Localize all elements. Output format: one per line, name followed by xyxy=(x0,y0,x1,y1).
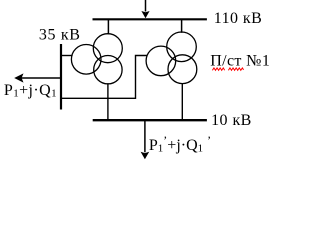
wire: 10 kV load feeder with arrow (P1'+jQ1') xyxy=(141,121,150,159)
wire: incoming 110 kV supply arrow xyxy=(141,0,149,18)
transformer T1 LV winding xyxy=(94,55,122,83)
transformer T2 MV winding xyxy=(146,46,176,76)
transformer T1 (three-winding, left) HV winding xyxy=(93,34,122,63)
transformer T2 LV winding xyxy=(168,55,197,84)
svg-text:110 кВ: 110 кВ xyxy=(214,10,262,27)
wire: T1 LV winding down to 10 kV bus xyxy=(107,83,109,120)
bus: 10 kV busbar xyxy=(93,119,207,121)
bus: 110 kV busbar xyxy=(93,18,207,20)
svg-text:35 кВ: 35 кВ xyxy=(39,26,81,43)
transformer T1 MV winding xyxy=(71,45,101,75)
svg-text:P1+j·Q1: P1+j·Q1 xyxy=(4,82,57,100)
spellcheck squiggle under "П/" xyxy=(212,68,224,70)
svg-text:10 кВ: 10 кВ xyxy=(211,112,252,129)
spellcheck squiggle under "ст" xyxy=(228,68,243,70)
wire: T2 LV winding down to 10 kV bus xyxy=(181,83,183,120)
wire: 110 kV bus to transformer T2 HV winding xyxy=(181,20,183,33)
bus: 35 kV busbar (vertical) xyxy=(60,44,62,110)
wire: 35 kV bus to T1 MV winding xyxy=(62,55,73,57)
transformer T2 (three-winding, right) HV winding xyxy=(167,32,197,62)
svg-text:П/ст №1: П/ст №1 xyxy=(210,52,270,69)
wire: T2 MV winding to 35 kV bus (elbow) xyxy=(61,56,148,99)
wire: 35 kV load feeder with arrow (P1+jQ1) xyxy=(14,73,60,82)
wire: 110 kV bus to transformer T1 HV winding xyxy=(107,20,109,34)
